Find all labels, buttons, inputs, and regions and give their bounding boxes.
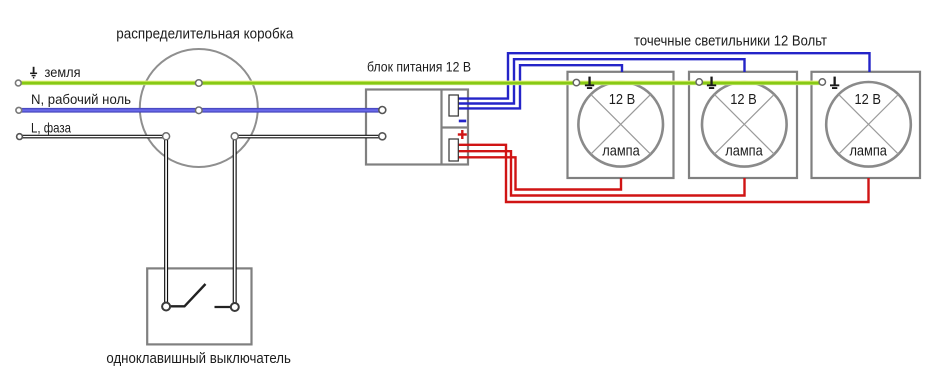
switch lever (171, 284, 206, 306)
switch box S1 (147, 268, 251, 344)
wire 12V plus to lamp3 (red) (459, 145, 869, 202)
terminal L (left end) (17, 134, 23, 140)
ground symbol земля label (30, 67, 37, 78)
power supply box U1 (366, 90, 468, 165)
svg-text:лампа: лампа (725, 144, 763, 160)
junction on L wire left (163, 133, 170, 140)
wire 12V minus to lamp3 (blue) (459, 53, 870, 98)
wire switch left vertical (double line) (164, 140, 168, 303)
PSU left terminal N (379, 107, 386, 114)
lamp 2 cross diagonals (714, 94, 774, 154)
wire PE земля (green horizontal) (21, 81, 822, 86)
terminal N (left end) (16, 107, 22, 113)
lamp 3 cross diagonals (839, 94, 899, 154)
wire 12V plus to lamp1 (red) (459, 157, 622, 189)
lamp 3 circle (826, 82, 911, 167)
PSU plus output terminal block (449, 139, 458, 161)
wire N (blue horizontal) (22, 108, 380, 113)
wire 12V minus to lamp1 (blue) (459, 65, 623, 108)
PSU terminal section divider vertical (440, 90, 442, 165)
lamp 1 terminal (573, 79, 579, 85)
lamp 1 circle (578, 82, 663, 167)
svg-text:L, фаза: L, фаза (31, 119, 71, 135)
distribution box circle (140, 49, 258, 167)
junction on N wire (196, 107, 203, 114)
wire switch right vertical (double line) (233, 140, 237, 303)
lamp 1 ground symbol (585, 77, 594, 89)
PSU minus output terminal block (449, 95, 458, 116)
wire 12V plus to lamp2 (red) (459, 151, 745, 195)
junction on PE wire (196, 80, 203, 87)
junction on L wire right (231, 133, 238, 140)
svg-text:одноклавишный выключатель: одноклавишный выключатель (106, 351, 291, 367)
svg-text:12 В: 12 В (730, 92, 757, 108)
svg-text:12 В: 12 В (854, 92, 881, 108)
switch right contact line (215, 306, 232, 308)
lamp 2 circle (702, 82, 787, 167)
svg-text:распределительная коробка: распределительная коробка (116, 27, 294, 43)
switch right terminal (231, 303, 239, 311)
lamp 2 box (689, 72, 797, 178)
lamp 3 terminal (819, 79, 825, 85)
lamp 1 box (568, 72, 674, 178)
lamp 2 terminal (696, 79, 702, 85)
svg-text:блок питания 12 В: блок питания 12 В (367, 58, 471, 74)
switch left terminal (162, 303, 170, 311)
svg-text:N, рабочий ноль: N, рабочий ноль (31, 91, 131, 107)
terminal земля (left end) (15, 80, 21, 86)
wire L phase left segment (double line) (22, 135, 163, 139)
lamp 3 box (812, 72, 921, 178)
svg-text:12 В: 12 В (609, 92, 636, 108)
lamp 2 ground symbol (707, 77, 716, 89)
lamp 3 ground symbol (830, 77, 839, 89)
PSU terminal section divider horizontal (442, 126, 469, 128)
lamp 1 cross diagonals (591, 94, 651, 154)
svg-text:точечные светильники 12 Вольт: точечные светильники 12 Вольт (634, 34, 827, 50)
svg-text:лампа: лампа (602, 144, 640, 160)
wire 12V minus to lamp2 (blue) (459, 59, 745, 103)
PSU left terminal L (379, 133, 386, 140)
PSU minus sign (459, 120, 466, 123)
wire L phase right segment to PSU (double line) (238, 135, 379, 139)
svg-text:лампа: лампа (849, 144, 887, 160)
svg-text:земля: земля (45, 64, 81, 80)
PSU plus sign (458, 130, 467, 139)
